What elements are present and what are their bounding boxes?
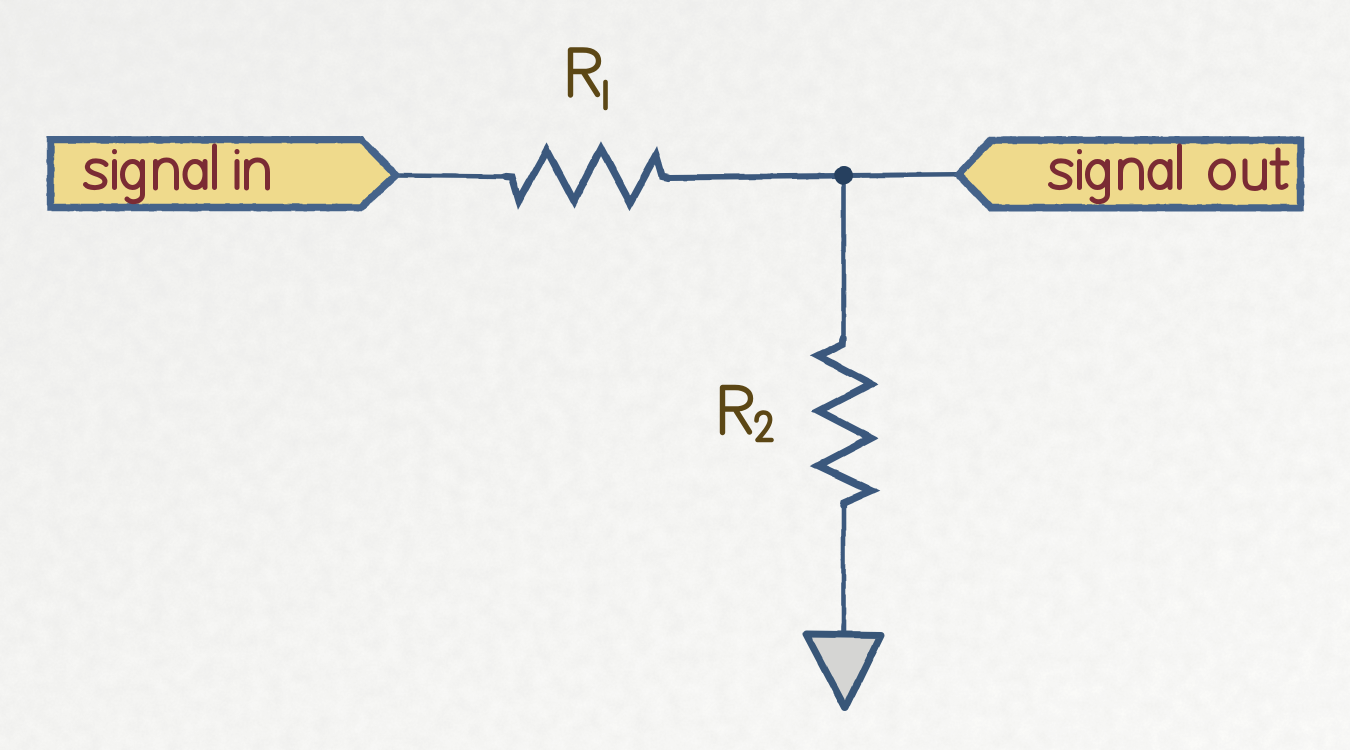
wire: node A to signal-out flag tip (845, 175, 957, 176)
label R2 (723, 388, 772, 441)
label R1 (571, 50, 606, 108)
resistor R1 (horizontal zigzag) (506, 149, 668, 203)
text "signal out" (1051, 146, 1288, 202)
ground symbol (807, 634, 882, 708)
node A (junction dot) (834, 166, 853, 185)
net flag "signal in" (51, 140, 397, 208)
resistor R2 (vertical zigzag) (818, 338, 871, 506)
wire: resistor R2 to ground (841, 505, 846, 631)
text "signal in" (86, 146, 268, 202)
wire: resistor R1 to node A (667, 176, 841, 178)
wire: node A down to resistor R2 (841, 176, 846, 338)
wire: signal-in flag tip to resistor R1 (396, 176, 506, 177)
net flag "signal out" (959, 140, 1301, 208)
